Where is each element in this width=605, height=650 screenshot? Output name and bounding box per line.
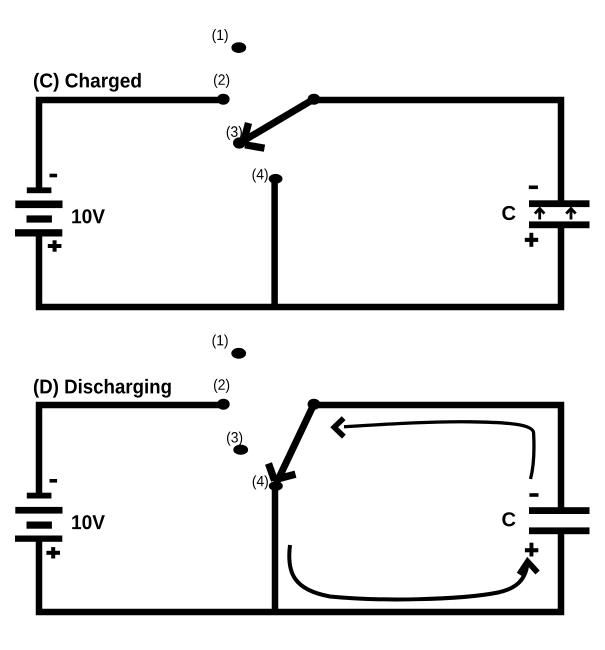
battery B1 (10V) plates (15, 187, 63, 236)
wire: left lower + bottom wire + right lower (39, 227, 561, 307)
node 4 dot (269, 174, 283, 184)
label (1) (D) (213, 335, 228, 349)
node 3 dot (233, 137, 246, 148)
battery plate long (D) (15, 507, 62, 514)
battery plus sign (D) (46, 547, 60, 558)
battery B2 (10V) plates (D) (15, 493, 63, 542)
wire: top-right segment from switch pivot + right vertical down to capacitor (D) (314, 405, 561, 509)
battery plate long bottom (15, 229, 62, 236)
capacitor plus sign (D) (525, 543, 538, 557)
battery plus sign (48, 240, 62, 251)
switch arm arrowhead barb upper (245, 123, 249, 139)
switch arm (pivot to node 4) (D) (277, 404, 315, 483)
switch pivot dot (D) (308, 399, 321, 410)
node 1 dot (D) (231, 348, 246, 359)
battery minus sign (D) (50, 479, 58, 483)
discharge arrow top arrowhead (334, 418, 344, 436)
switch pivot dot (308, 94, 321, 105)
battery minus sign (50, 174, 58, 178)
capacitor minus sign (529, 186, 538, 190)
capacitor C top plate (529, 200, 590, 207)
label (4) (253, 169, 268, 183)
capacitor C bottom plate (529, 221, 590, 228)
wire: left vertical + top-left segment to node 2 (D) (39, 405, 223, 496)
battery plate short (neg terminal) (D) (27, 493, 52, 499)
switch arm (pivot to node 3) (242, 99, 315, 142)
battery plate medium (D) (27, 522, 52, 529)
capacitor C top plate (D) (529, 507, 590, 514)
battery plate long (15, 201, 62, 209)
node 3 dot (D) (233, 445, 248, 455)
wire: middle vertical from node 4 down to bottom wire (271, 182, 278, 307)
label (2) (214, 74, 229, 88)
switch arm arrowhead barb right (D) (278, 474, 296, 479)
discharge current arrow top (from capacitor to switch) (344, 422, 534, 479)
node 2 dot (D) (217, 399, 230, 410)
capacitor label C (502, 206, 515, 220)
node 4 dot (D) (269, 481, 283, 491)
label (4) (D) (253, 475, 268, 489)
label (1) (213, 29, 228, 43)
field arrow right (between plates) (566, 209, 576, 220)
label (3) (227, 126, 242, 140)
label (2) (D) (214, 379, 229, 393)
capacitor minus sign (D) (529, 493, 538, 497)
node 1 dot (231, 42, 246, 53)
field arrow left (between plates) (535, 209, 545, 220)
label 10V (D) (72, 515, 105, 529)
battery plate medium (27, 215, 52, 222)
switch arm arrowhead barb lower (245, 145, 265, 148)
wire: top-right segment from switch pivot + right vertical down to capacitor (314, 100, 561, 202)
node 2 dot (217, 94, 230, 105)
wire: left lower + bottom wire + right lower (D) (39, 533, 561, 612)
switch arm arrowhead barb left (D) (269, 464, 275, 481)
label 10V (72, 209, 105, 223)
capacitor C bottom plate (D) (529, 527, 590, 534)
capacitor label C (D) (502, 512, 515, 526)
battery plate long bottom (D) (15, 536, 62, 542)
battery plate short (neg terminal) (27, 187, 52, 193)
wire: left vertical + top-left segment to node 2 (39, 100, 223, 191)
discharge arrow bottom arrowhead (519, 562, 537, 575)
title (C) Charged (34, 73, 141, 92)
discharge current arrow bottom (from switch side to capacitor plus) (289, 545, 527, 599)
capacitor plus sign (525, 233, 538, 247)
wire: middle vertical from node 4 down to bottom wire (D) (272, 487, 279, 612)
label (3) (D) (227, 432, 242, 446)
title (D) Discharging (34, 379, 171, 398)
